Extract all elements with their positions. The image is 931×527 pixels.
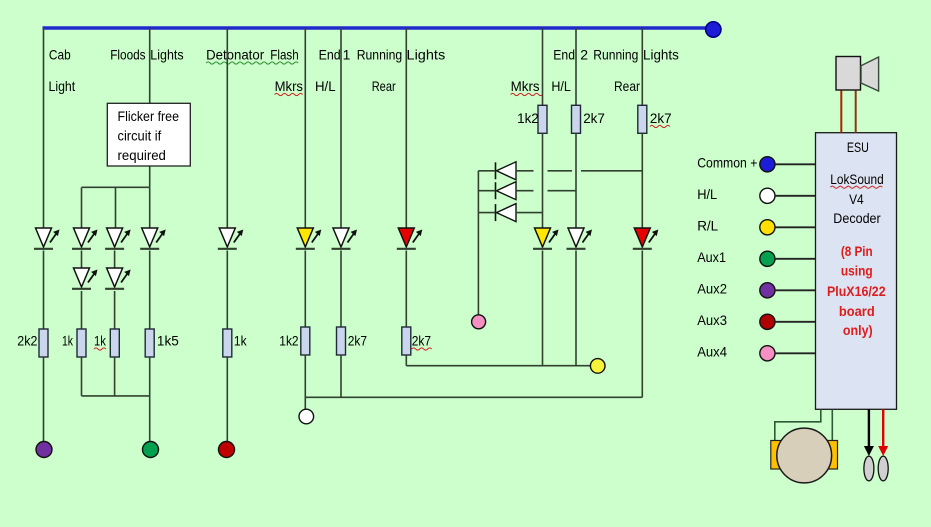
svg-text:circuit if: circuit if [118, 128, 162, 144]
svg-text:Detonator: Detonator [206, 47, 264, 63]
wheel left [864, 456, 874, 481]
label LokSound [830, 171, 883, 188]
label Rear (end 2) [614, 78, 640, 94]
wire detonator drop [226, 28, 228, 228]
wire [149, 396, 151, 442]
svg-text:2: 2 [580, 47, 588, 63]
wire end2 rear drop [641, 28, 643, 106]
terminal Aux1 (green) floods [143, 442, 159, 458]
wire [575, 133, 577, 228]
wire [405, 251, 407, 328]
label using [841, 263, 873, 279]
svg-text:R/L: R/L [697, 218, 718, 234]
wire Common + to decoder [775, 163, 816, 165]
svg-text:2k2: 2k2 [17, 333, 37, 349]
motor brush left [771, 441, 785, 470]
wire end1 H/L drop [340, 28, 342, 228]
label Mkrs (end 1) [275, 78, 303, 96]
wire diode D16 anode [516, 212, 543, 214]
label Aux2 [697, 281, 727, 297]
svg-text:1k5: 1k5 [157, 333, 179, 349]
wheel right [878, 456, 888, 481]
terminal R/L (yellow) [590, 359, 605, 374]
pin R/L (yellow) [760, 220, 775, 235]
svg-text:Lights: Lights [643, 47, 679, 63]
wire diode cathode bus [478, 171, 495, 315]
svg-text:LokSound: LokSound [830, 171, 883, 187]
terminal Aux2 (purple) cab light [36, 442, 52, 458]
wire [114, 251, 116, 269]
label Lights (floods) [150, 47, 183, 63]
svg-text:Common +: Common + [697, 155, 757, 171]
LED floods D3 [72, 268, 98, 289]
wire [81, 251, 83, 269]
svg-text:1k: 1k [234, 333, 248, 349]
wire diode D14 anode (with hops) [516, 170, 642, 172]
label End 2 Running Lights [553, 47, 679, 63]
wire track pickup right (red arrow) [878, 409, 888, 456]
resistor 2k7 (end1 H/L) [337, 327, 346, 355]
svg-text:1k: 1k [62, 333, 74, 349]
label 2k7 [412, 333, 432, 351]
wire [226, 251, 228, 330]
label 1k [234, 333, 248, 349]
wire Aux2 to decoder [775, 289, 816, 291]
resistor 1k (detonator) [223, 329, 232, 357]
label Common + [697, 155, 757, 171]
pin Aux4 (pink) [760, 346, 775, 361]
svg-text:(8 Pin: (8 Pin [841, 243, 873, 259]
LED detonator flash D7 [218, 228, 244, 249]
label Detonator Flash [206, 47, 299, 65]
wire Aux4 to decoder [775, 352, 816, 354]
wire floods bottom rail [82, 395, 150, 397]
svg-text:2k7: 2k7 [583, 110, 605, 126]
wire [641, 133, 643, 228]
label 1k5 [157, 333, 179, 349]
svg-text:End: End [553, 47, 575, 63]
svg-text:Decoder: Decoder [833, 210, 881, 226]
label (8 Pin [841, 243, 873, 259]
LED floods D6 [140, 228, 166, 249]
label board [839, 303, 875, 319]
wire [149, 357, 151, 396]
blue bus terminal node [706, 22, 721, 37]
wire R/L to decoder [775, 226, 816, 228]
svg-text:1k: 1k [94, 333, 107, 349]
svg-text:1k2: 1k2 [517, 110, 539, 126]
wire Aux3 to decoder [775, 321, 816, 323]
label H/L [697, 186, 717, 202]
svg-text:only): only) [843, 322, 873, 338]
label 2k7 [348, 333, 367, 349]
wire [405, 355, 407, 366]
resistor 2k7 (end2 rear) [638, 105, 647, 133]
svg-text:ESU: ESU [847, 139, 869, 155]
LED floods D2 [72, 228, 98, 249]
wire [340, 355, 342, 398]
label Floods [110, 47, 145, 63]
wire speaker - [855, 91, 857, 133]
LED end1 rear (red) D10 [397, 228, 423, 249]
wire [304, 355, 306, 410]
wire motor lead 2 [831, 409, 833, 440]
terminal Aux3 (dark red) detonator [219, 442, 235, 458]
svg-text:2k7: 2k7 [412, 333, 431, 349]
svg-text:H/L: H/L [315, 78, 336, 94]
wire [81, 291, 83, 329]
wire [81, 357, 83, 396]
label End 1 Running Lights [319, 47, 446, 63]
label Mkrs (end 2) [511, 78, 543, 96]
wire [114, 291, 116, 329]
label ESU [847, 139, 869, 155]
LED cab light D1 [34, 228, 60, 249]
LED floods D4 [105, 228, 131, 249]
pin H/L (white) [760, 188, 775, 203]
wire [304, 251, 306, 328]
svg-text:Aux1: Aux1 [697, 249, 726, 265]
motor brush right [824, 441, 838, 470]
svg-text:Running: Running [357, 47, 403, 63]
label Aux3 [697, 312, 727, 328]
wire end1 rear drop [405, 28, 407, 228]
pin Aux3 (dark red) [760, 314, 775, 329]
pin Aux1 (green) [760, 251, 775, 266]
label R/L [697, 218, 718, 234]
wire floods branch 3 [149, 187, 151, 228]
resistor 2k7 (end2 H/L) [572, 105, 581, 133]
wire [542, 133, 544, 228]
LED end2 headlight D12 [567, 228, 593, 249]
label V4 [849, 191, 864, 207]
pin Common + (blue) [760, 157, 775, 172]
svg-text:Aux2: Aux2 [697, 281, 727, 297]
svg-text:Flicker free: Flicker free [118, 108, 180, 124]
resistor 1k (floods 2) [110, 329, 119, 357]
wire [43, 357, 45, 442]
svg-text:Lights: Lights [407, 47, 446, 63]
wire floods drop [149, 28, 151, 187]
wire cab light drop [43, 28, 45, 228]
svg-text:Rear: Rear [614, 78, 640, 94]
wire diode D15 anode (with hop) [516, 190, 576, 192]
terminal Aux4 (pink) [472, 315, 486, 329]
wire motor lead 1 [775, 409, 821, 440]
label Light [49, 78, 76, 94]
svg-text:PluX16/22: PluX16/22 [827, 283, 886, 299]
resistor 1k (floods 1) [77, 329, 86, 357]
label 2k7 [583, 110, 605, 126]
label 1k [62, 333, 74, 349]
svg-text:H/L: H/L [697, 186, 717, 202]
LED end1 markers (yellow) D8 [296, 228, 322, 249]
resistor 1k5 [145, 329, 154, 357]
diode D15 (H/L end2 feed) [496, 182, 517, 200]
svg-text:Aux3: Aux3 [697, 312, 727, 328]
wire end2 H/L drop [575, 28, 577, 106]
wire [340, 251, 342, 328]
svg-text:Rear: Rear [372, 78, 396, 94]
svg-text:Floods: Floods [110, 47, 145, 63]
svg-text:2k7: 2k7 [348, 333, 367, 349]
resistor 2k2 [39, 329, 48, 357]
wire [226, 357, 228, 442]
LED end2 markers (yellow) D11 [533, 228, 559, 249]
wire [641, 251, 643, 398]
label H/L (end 2) [551, 78, 571, 94]
svg-text:Light: Light [49, 78, 76, 94]
label Aux4 [697, 344, 727, 360]
wire H/L bottom rail [305, 396, 642, 398]
svg-text:V4: V4 [849, 191, 864, 207]
wire [575, 251, 577, 366]
wire floods branch 2 [115, 187, 117, 228]
label 2k7 [650, 110, 672, 128]
svg-text:1k2: 1k2 [279, 333, 298, 349]
svg-text:board: board [839, 303, 875, 319]
diode D14 (rear end2 feed) [496, 162, 517, 180]
label Aux1 [697, 249, 726, 265]
svg-text:End: End [319, 47, 341, 63]
label Rear (end 1) [372, 78, 396, 94]
blue power bus (Common +) [43, 26, 708, 30]
label 1k [94, 333, 107, 351]
wire H/L to decoder [775, 195, 816, 197]
wire [114, 357, 116, 396]
svg-text:Mkrs: Mkrs [511, 78, 540, 94]
label 2k2 [17, 333, 37, 349]
wire R/L rail to yellow node [406, 365, 590, 367]
wire [542, 251, 544, 366]
svg-text:H/L: H/L [551, 78, 571, 94]
LED end1 headlight D9 [332, 228, 358, 249]
svg-text:2k7: 2k7 [650, 110, 672, 126]
speaker LS1 [836, 57, 879, 92]
wire Aux1 to decoder [775, 258, 816, 260]
svg-text:1: 1 [343, 47, 351, 63]
label 1k2 [517, 110, 539, 126]
terminal H/L common (white) [299, 409, 314, 424]
wire [43, 251, 45, 330]
note box: Flicker free circuit if required [107, 103, 190, 166]
wire speaker + [840, 91, 842, 133]
resistor 1k2 (end2 markers) [538, 105, 547, 133]
svg-text:Flash: Flash [270, 47, 298, 63]
wire end1 markers drop [304, 28, 306, 228]
LED floods D5 [105, 268, 131, 289]
resistor 1k2 (end1 markers) [301, 327, 310, 355]
svg-text:Lights: Lights [150, 47, 183, 63]
svg-text:using: using [841, 263, 873, 279]
diode D16 (markers end2 feed) [496, 204, 517, 222]
LED end2 rear (red) D13 [633, 228, 659, 249]
svg-text:Cab: Cab [49, 47, 71, 63]
label Decoder [833, 210, 881, 226]
label H/L (end 1) [315, 78, 336, 94]
wire floods branch 1 [81, 187, 83, 228]
svg-text:Mkrs: Mkrs [275, 78, 303, 94]
wire floods top rail [82, 186, 150, 188]
decoder U1: ESU LokSound V4 [816, 133, 897, 410]
label Cab [49, 47, 71, 63]
label 1k2 [279, 333, 298, 349]
wire end2 markers drop [542, 28, 544, 106]
svg-text:required: required [118, 147, 166, 163]
motor M1 [777, 428, 832, 483]
label PluX16/22 [827, 283, 886, 299]
svg-text:Aux4: Aux4 [697, 344, 727, 360]
svg-text:Running: Running [593, 47, 638, 63]
pin Aux2 (purple) [760, 283, 775, 298]
wire [149, 251, 151, 330]
label only) [843, 322, 873, 338]
wire track pickup left (black arrow) [864, 409, 874, 456]
resistor 2k7 (end1 rear) [402, 327, 411, 355]
